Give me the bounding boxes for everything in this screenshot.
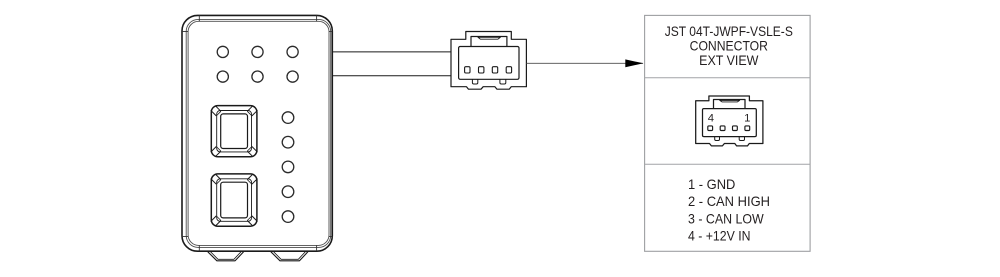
LED indicator grid row 1 xyxy=(217,46,298,82)
LED C4 xyxy=(282,186,294,198)
LED C5 xyxy=(282,211,294,223)
keypad housing inner bevel line 2 xyxy=(188,21,329,245)
LED C1 xyxy=(282,112,294,124)
LED A2 xyxy=(252,46,263,57)
LED C3 xyxy=(282,161,294,173)
ext view polarizing tab right xyxy=(739,137,744,141)
arrowhead xyxy=(625,59,643,67)
connector J1 pin window 4 xyxy=(506,67,511,73)
connector J1 pin window 3 xyxy=(492,67,497,73)
callout box frame xyxy=(645,15,811,251)
ext view pin window 1 xyxy=(708,126,713,131)
keypad housing inner bevel line 1 xyxy=(186,19,331,247)
callout divider upper xyxy=(645,77,811,79)
housing seam tick left lower xyxy=(182,236,188,238)
ext view polarizing tab left xyxy=(715,137,720,141)
ext view pin window 3 xyxy=(733,126,738,131)
svg-text:1: 1 xyxy=(744,112,750,124)
LED C2 xyxy=(282,136,294,148)
ext view pin window 2 xyxy=(720,126,725,131)
connector J1 cavity xyxy=(459,47,519,80)
LED B1 xyxy=(217,71,228,82)
ext view pin window 4 xyxy=(745,126,750,131)
ext view latch slot xyxy=(720,100,740,102)
mounting tab left xyxy=(208,252,244,261)
connector J1 pin window 1 xyxy=(465,67,470,73)
callout divider lower xyxy=(645,163,811,165)
housing seam tick right upper xyxy=(329,31,332,33)
housing seam tick top left xyxy=(198,15,200,21)
svg-text:2 - CAN HIGH: 2 - CAN HIGH xyxy=(688,193,770,209)
svg-text:3 - CAN LOW: 3 - CAN LOW xyxy=(688,210,764,226)
LED B2 xyxy=(252,71,263,82)
housing seam tick right lower xyxy=(329,236,332,238)
LED A3 xyxy=(287,46,298,57)
ext view latch tab xyxy=(714,100,746,109)
button S2 xyxy=(211,174,258,226)
housing seam tick top right xyxy=(316,15,318,21)
connector J1 polarizing tab left xyxy=(472,79,477,84)
wire lower xyxy=(332,75,451,77)
mounting tab right xyxy=(271,252,308,261)
LED indicator column xyxy=(282,112,294,223)
svg-text:1 - GND: 1 - GND xyxy=(688,176,735,192)
LED A1 xyxy=(217,46,228,57)
housing seam tick bottom left xyxy=(198,245,200,251)
wire upper xyxy=(332,51,451,53)
connector J1 pin window 2 xyxy=(479,67,484,73)
connector J1 ext view drawing xyxy=(696,96,763,146)
connector J1 latch tab xyxy=(471,37,507,47)
housing seam tick left upper xyxy=(182,31,188,33)
svg-text:4: 4 xyxy=(708,112,714,124)
housing seam tick bottom right xyxy=(316,245,318,251)
leader line to callout xyxy=(526,62,643,64)
keypad housing outer outline xyxy=(182,15,332,251)
svg-text:EXT VIEW: EXT VIEW xyxy=(699,52,759,68)
svg-text:4 - +12V IN: 4 - +12V IN xyxy=(688,228,751,244)
connector J1 polarizing tab right xyxy=(500,79,506,84)
connector J1 body (JST 04T-JWPF-VSLE-S) xyxy=(451,32,526,90)
LED B3 xyxy=(287,71,298,82)
ext view cavity xyxy=(703,109,757,137)
connector J1 latch slot xyxy=(478,37,501,39)
button S1 xyxy=(211,106,258,157)
